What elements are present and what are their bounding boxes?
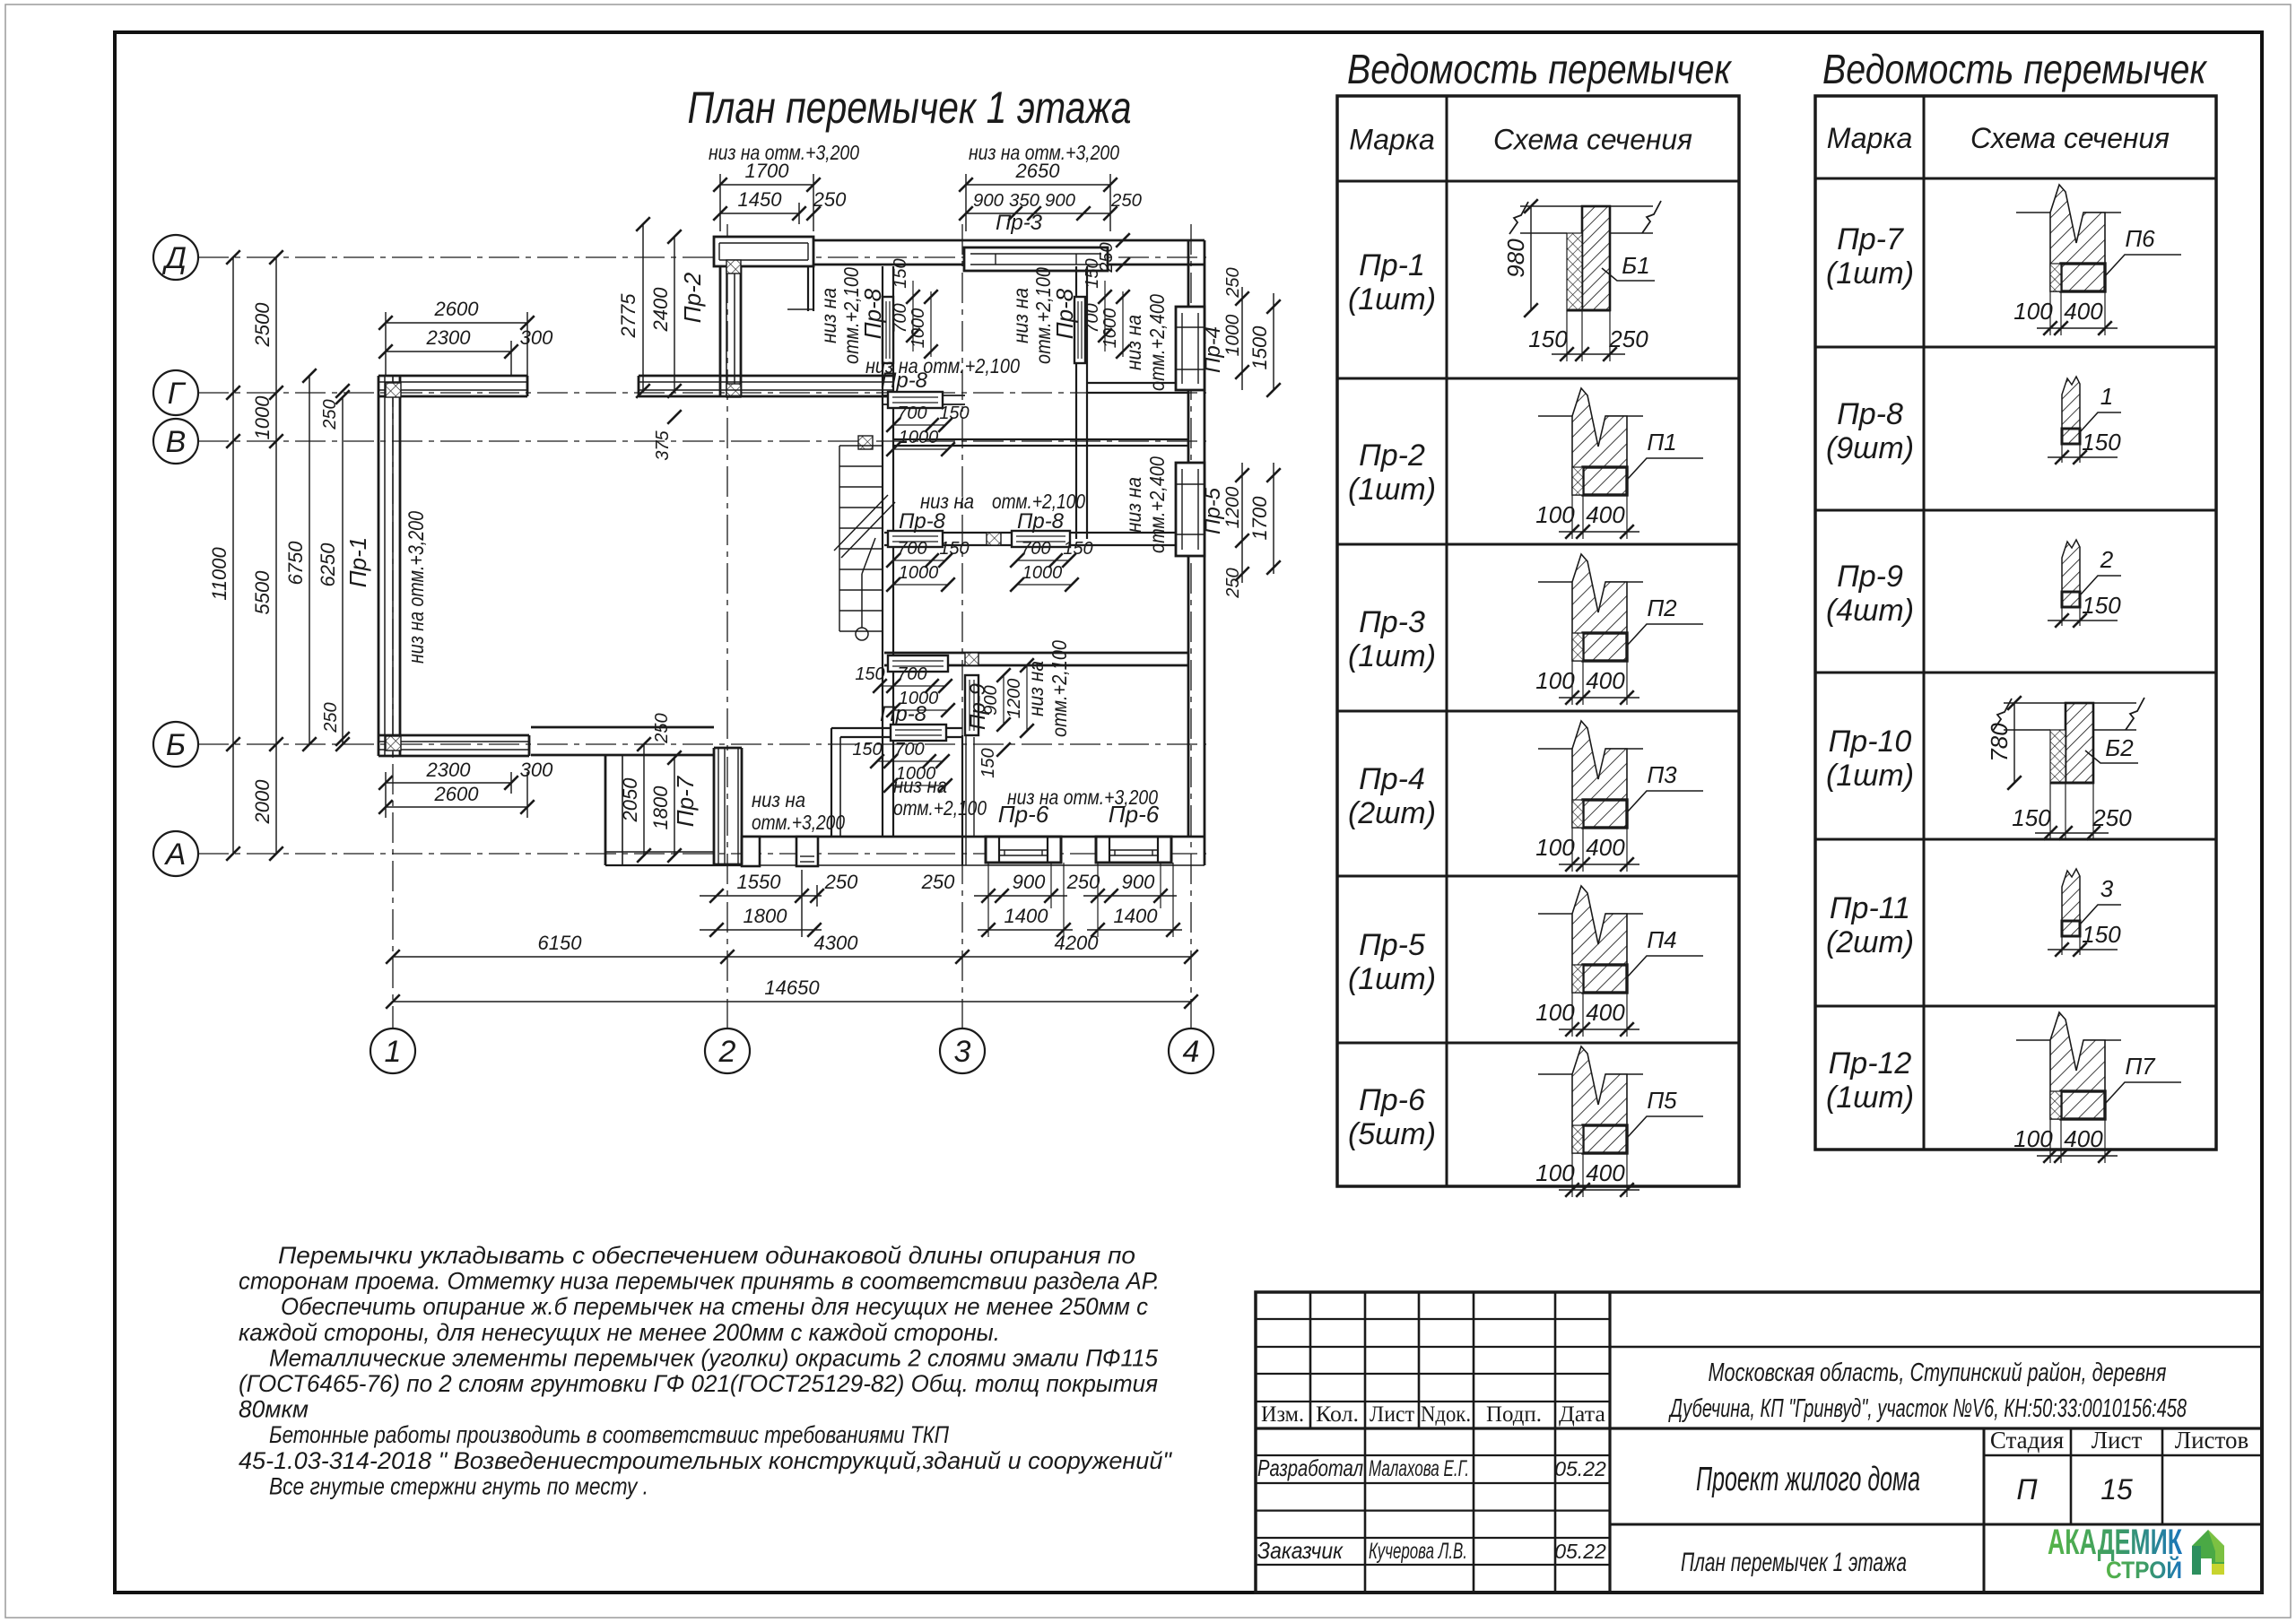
svg-text:4: 4 — [1183, 1035, 1200, 1069]
svg-text:(9шт): (9шт) — [1826, 431, 1914, 465]
svg-text:400: 400 — [1586, 501, 1625, 528]
svg-text:100: 100 — [2013, 1125, 2053, 1152]
bottom wall jamb piece x=827 — [742, 837, 760, 866]
svg-text:15: 15 — [2100, 1473, 2133, 1506]
porch bottom threshold — [605, 851, 714, 853]
svg-text:6750: 6750 — [284, 541, 307, 586]
svg-text:900: 900 — [1013, 871, 1046, 893]
svg-text:6250: 6250 — [317, 542, 339, 587]
axis А line — [198, 853, 1206, 855]
svg-text:400: 400 — [1586, 667, 1625, 694]
svg-text:150: 150 — [891, 258, 910, 288]
svg-text:350: 350 — [1009, 191, 1039, 211]
svg-text:2500: 2500 — [251, 302, 274, 348]
section diagram П6 — [2013, 185, 2181, 335]
svg-text:100: 100 — [1535, 501, 1575, 528]
left dim line 11000 — [232, 257, 234, 854]
axis circle А — [153, 831, 198, 876]
left dim line 2500/1000/5500/2000 — [275, 257, 277, 854]
lintel Пр-8 vertical bar right room — [1074, 297, 1085, 363]
svg-text:3: 3 — [2100, 875, 2114, 902]
svg-text:Пр-8: Пр-8 — [899, 509, 946, 534]
svg-text:Пр-8: Пр-8 — [1017, 509, 1065, 534]
lintel Пр-2 vertical wall lines — [719, 266, 722, 397]
svg-text:700: 700 — [1021, 539, 1050, 559]
svg-text:отм.+2,400: отм.+2,400 — [1145, 456, 1169, 553]
lintel Пр-8 vertical bar left room — [883, 297, 893, 363]
svg-text:2050: 2050 — [619, 777, 641, 823]
svg-text:Ведомость перемычек: Ведомость перемычек — [1822, 46, 2208, 92]
svg-text:150: 150 — [1063, 539, 1092, 559]
svg-text:П: П — [2016, 1473, 2038, 1506]
svg-text:Пр-8: Пр-8 — [881, 369, 928, 393]
dims for right vertical Пр-8 — [1104, 281, 1106, 352]
svg-text:План перемычек 1 этажа: План перемычек 1 этажа — [688, 82, 1132, 133]
axis circle Г — [153, 370, 198, 415]
svg-text:250: 250 — [2092, 804, 2132, 831]
svg-text:1800: 1800 — [744, 905, 788, 927]
svg-text:1000: 1000 — [1222, 314, 1243, 356]
svg-text:4200: 4200 — [1055, 932, 1100, 954]
svg-text:2000: 2000 — [251, 779, 274, 825]
svg-text:700: 700 — [1083, 303, 1102, 333]
svg-text:(1шт): (1шт) — [1826, 1081, 1914, 1115]
svg-text:отм.+2,100: отм.+2,100 — [893, 796, 987, 820]
svg-text:Пр-2: Пр-2 — [1359, 438, 1425, 473]
axis circle 2 — [705, 1028, 750, 1073]
svg-text:5500: 5500 — [251, 570, 274, 615]
svg-text:250: 250 — [1223, 267, 1243, 298]
svg-text:План перемычек 1 этажа: План перемычек 1 этажа — [1681, 1548, 1907, 1577]
dim 1800 rotated — [674, 758, 675, 855]
dim 2400 (rotated) — [674, 237, 675, 391]
lintel Пр-2 top corner bar — [714, 237, 813, 266]
svg-text:Пр-8: Пр-8 — [880, 702, 927, 726]
lintel Пр-4 bar — [1176, 307, 1205, 390]
svg-text:Пр-4: Пр-4 — [1201, 326, 1225, 373]
svg-text:1400: 1400 — [1004, 905, 1049, 927]
svg-text:А: А — [164, 838, 187, 872]
svg-text:Пр-8: Пр-8 — [1051, 288, 1078, 339]
svg-text:1: 1 — [2100, 383, 2113, 410]
svg-text:Пр-9: Пр-9 — [1837, 560, 1903, 594]
svg-text:Дата: Дата — [1559, 1402, 1605, 1427]
svg-text:300: 300 — [520, 759, 553, 781]
axis Д line — [198, 256, 1206, 258]
dims bar D — [893, 685, 945, 687]
section diagram 3 — [2048, 869, 2121, 957]
stair treads — [839, 445, 883, 447]
svg-text:отм.+3,200: отм.+3,200 — [752, 811, 845, 834]
svg-text:Пр-5: Пр-5 — [1359, 928, 1425, 962]
logo АКАДЕМИК СТРОЙ — [2048, 1523, 2224, 1584]
svg-text:05.22: 05.22 — [1554, 1457, 1606, 1480]
axis circle Д — [153, 235, 198, 280]
svg-text:250: 250 — [320, 399, 340, 430]
svg-text:150: 150 — [855, 664, 884, 684]
svg-text:250: 250 — [813, 188, 847, 211]
title block frame — [1256, 1292, 2262, 1593]
svg-text:Разработал: Разработал — [1257, 1454, 1363, 1481]
svg-text:1450: 1450 — [738, 188, 783, 211]
hatched pier top-left corner — [386, 383, 401, 397]
svg-text:Перемычки укладывать с обеспеч: Перемычки укладывать с обеспечением один… — [278, 1242, 1135, 1269]
hatched pier below Пр-2 top — [726, 260, 741, 273]
dim 2650 above Пр-3 — [966, 184, 1110, 186]
svg-text:Схема сечения: Схема сечения — [1493, 124, 1692, 156]
svg-text:150: 150 — [1528, 325, 1568, 352]
svg-text:150: 150 — [2082, 429, 2121, 456]
lintel Пр-8 bar E — [891, 725, 946, 741]
svg-text:Марка: Марка — [1349, 124, 1435, 156]
svg-text:Кол.: Кол. — [1316, 1402, 1359, 1427]
svg-text:1: 1 — [385, 1035, 402, 1069]
svg-text:Марка: Марка — [1827, 122, 1913, 154]
svg-text:1500: 1500 — [1248, 325, 1271, 370]
dim 1450/250 above Пр-2 — [720, 213, 799, 214]
svg-text:1000: 1000 — [899, 428, 939, 447]
svg-text:100: 100 — [1535, 834, 1575, 861]
svg-text:150: 150 — [939, 404, 969, 423]
svg-text:низ на отм.+3,200: низ на отм.+3,200 — [709, 141, 859, 164]
svg-text:низ на: низ на — [1024, 661, 1048, 716]
svg-text:2300: 2300 — [426, 759, 472, 781]
dim 1800 bottom — [700, 929, 822, 931]
svg-text:400: 400 — [2064, 298, 2103, 325]
svg-text:100: 100 — [2013, 298, 2053, 325]
svg-text:375: 375 — [653, 430, 673, 460]
svg-text:250: 250 — [1608, 325, 1648, 352]
axis circle Б — [153, 722, 198, 767]
svg-text:Листов: Листов — [2175, 1427, 2248, 1454]
svg-text:В: В — [166, 425, 187, 459]
svg-text:П2: П2 — [1647, 595, 1677, 621]
svg-text:250: 250 — [921, 871, 955, 893]
section diagram П3 — [1535, 721, 1703, 872]
svg-text:80мкм: 80мкм — [239, 1396, 309, 1423]
section diagram П2 — [1535, 554, 1703, 705]
svg-text:(1шт): (1шт) — [1826, 256, 1914, 291]
svg-text:2600: 2600 — [434, 783, 480, 805]
interior wall x=927-937 — [831, 728, 832, 837]
axis circle 4 — [1169, 1028, 1213, 1073]
exterior wall along axis Д — [813, 239, 1205, 242]
porch wall top on axis Б — [531, 726, 714, 729]
svg-text:900: 900 — [1122, 871, 1155, 893]
svg-text:Лист: Лист — [2092, 1427, 2143, 1454]
section diagram П1 — [1535, 388, 1703, 539]
svg-text:2400: 2400 — [649, 287, 672, 333]
wall on axis Г from stair to Пр-2 — [639, 375, 893, 378]
dims bar B — [893, 560, 945, 561]
lintel Пр-7 vertical bar — [713, 748, 716, 864]
svg-text:П4: П4 — [1647, 926, 1676, 953]
hatched pier at Г wall — [726, 384, 741, 397]
svg-text:(1шт): (1шт) — [1348, 639, 1436, 673]
svg-text:Ведомость перемычек: Ведомость перемычек — [1347, 46, 1733, 92]
axis circle 3 — [940, 1028, 985, 1073]
svg-text:780: 780 — [1986, 723, 2013, 762]
svg-text:Проект жилого дома: Проект жилого дома — [1696, 1461, 1920, 1498]
svg-text:Пр-4: Пр-4 — [1359, 762, 1425, 796]
svg-text:П5: П5 — [1647, 1087, 1677, 1114]
svg-text:Изм.: Изм. — [1261, 1402, 1304, 1427]
svg-text:(5шт): (5шт) — [1348, 1117, 1436, 1151]
svg-text:400: 400 — [1586, 999, 1625, 1026]
wall on axis В — [893, 438, 1188, 440]
porch left wall — [604, 756, 607, 865]
svg-text:Пр-6: Пр-6 — [1359, 1083, 1425, 1117]
dim 2600 top — [386, 322, 527, 324]
axis 2 line — [726, 224, 728, 1028]
svg-text:250: 250 — [652, 713, 672, 743]
svg-text:П3: П3 — [1647, 761, 1677, 788]
svg-text:1200: 1200 — [1004, 679, 1024, 719]
svg-text:Пр-8: Пр-8 — [1837, 397, 1903, 431]
title block right area lines — [1610, 1346, 2262, 1349]
lintel Пр-6 bar left — [986, 837, 1061, 863]
section diagram П4 — [1535, 886, 1703, 1037]
svg-text:Пр-6: Пр-6 — [998, 801, 1049, 828]
title block small-table vertical lines — [1309, 1292, 1312, 1428]
stair break line — [834, 495, 888, 551]
svg-text:900: 900 — [973, 191, 1004, 211]
svg-text:1000: 1000 — [251, 395, 274, 440]
dims bar E — [891, 760, 943, 762]
svg-text:низ на: низ на — [1009, 288, 1032, 343]
svg-text:250: 250 — [824, 871, 858, 893]
svg-text:Малахова Е.Г.: Малахова Е.Г. — [1369, 1456, 1469, 1481]
svg-text:4300: 4300 — [814, 932, 859, 954]
svg-text:700: 700 — [891, 303, 910, 333]
svg-text:2300: 2300 — [426, 326, 472, 349]
dim 2775 (rotated) — [642, 224, 644, 391]
svg-text:1800: 1800 — [649, 785, 672, 830]
svg-text:Пр-11: Пр-11 — [1830, 891, 1910, 925]
svg-text:Металлические элементы перемыч: Металлические элементы перемычек (уголки… — [269, 1344, 1159, 1371]
svg-text:(ГОСТ6465-76) по 2 слоям грунт: (ГОСТ6465-76) по 2 слоям грунтовки ГФ 02… — [239, 1370, 1158, 1397]
svg-text:250: 250 — [321, 702, 341, 733]
lintel Пр-8 bar B — [888, 531, 943, 547]
wall top (Г) of left room — [378, 375, 527, 378]
svg-text:Nдок.: Nдок. — [1421, 1402, 1471, 1427]
bottom dims 250 900 row — [974, 895, 1067, 897]
svg-text:900: 900 — [1045, 191, 1075, 211]
dims for left vertical Пр-8 — [912, 281, 914, 352]
lintel Пр-8 bar A (wall y=446) — [883, 395, 965, 396]
svg-text:Пр-12: Пр-12 — [1829, 1046, 1912, 1081]
svg-text:Пр-7: Пр-7 — [1837, 222, 1904, 256]
svg-text:Пр-5: Пр-5 — [1201, 487, 1225, 534]
hatched pier on Б wall — [965, 653, 978, 665]
dim 900 350 900 250 above Пр-3 — [966, 213, 1110, 214]
svg-text:400: 400 — [1586, 834, 1625, 861]
svg-text:Пр-8: Пр-8 — [859, 288, 886, 339]
svg-text:Пр-6: Пр-6 — [1109, 801, 1160, 828]
svg-text:1400: 1400 — [1114, 905, 1159, 927]
axis В line — [198, 440, 1206, 442]
svg-text:100: 100 — [1535, 667, 1575, 694]
svg-text:Б1: Б1 — [1622, 252, 1649, 279]
svg-text:(1шт): (1шт) — [1348, 282, 1436, 317]
wall bottom (Б) of left room — [378, 734, 529, 737]
section diagram 2 — [2048, 540, 2121, 628]
dim 1700 above Пр-2 — [720, 184, 813, 186]
svg-text:Все гнутые стержни гнуть по ме: Все гнутые стержни гнуть по месту . — [269, 1472, 648, 1499]
svg-text:900: 900 — [981, 685, 1001, 715]
dim 2600 bottom — [386, 806, 527, 808]
svg-text:250: 250 — [1223, 568, 1243, 598]
left dim line 6750 — [309, 376, 310, 744]
svg-text:11000: 11000 — [208, 546, 230, 600]
svg-text:Пр-2: Пр-2 — [679, 272, 706, 323]
svg-text:1550: 1550 — [737, 871, 782, 893]
dim 2300 top — [386, 351, 511, 352]
svg-text:400: 400 — [1586, 1159, 1625, 1186]
interior wall y=594-608 with lintels Пр-8 — [884, 532, 1188, 534]
svg-text:1700: 1700 — [1248, 496, 1271, 541]
svg-text:П7: П7 — [2125, 1053, 2156, 1080]
svg-text:100: 100 — [1535, 1159, 1575, 1186]
svg-text:(1шт): (1шт) — [1348, 473, 1436, 507]
svg-text:700: 700 — [897, 539, 926, 559]
svg-text:1200: 1200 — [1222, 486, 1243, 528]
axis Г line — [198, 392, 1206, 394]
svg-text:Б: Б — [166, 728, 186, 762]
svg-text:каждой стороны, для ненесущих: каждой стороны, для ненесущих не менее 2… — [239, 1319, 1000, 1346]
svg-text:(1шт): (1шт) — [1826, 759, 1914, 793]
hatched pier bottom-left corner — [386, 736, 401, 751]
interior wall stub x=901-907 — [807, 266, 809, 311]
svg-text:05.22: 05.22 — [1554, 1540, 1606, 1563]
axis 4 line — [1190, 224, 1192, 1028]
svg-text:700: 700 — [897, 404, 926, 423]
svg-text:Бетонные работы производить в: Бетонные работы производить в соответств… — [269, 1421, 949, 1448]
svg-text:Заказчик: Заказчик — [1257, 1537, 1344, 1564]
axis Б line — [198, 743, 1206, 745]
lintel Пр-1 left wall lines — [378, 376, 380, 756]
lintel Пр-6 bar right — [1096, 837, 1171, 863]
wall on axis Г right segment — [1087, 382, 1188, 384]
svg-text:Лист: Лист — [1370, 1402, 1414, 1427]
svg-text:низ на отм.+3,200: низ на отм.+3,200 — [969, 141, 1119, 164]
svg-text:1000: 1000 — [909, 308, 928, 349]
svg-text:1000: 1000 — [896, 764, 936, 784]
svg-text:П6: П6 — [2125, 225, 2155, 252]
svg-text:Пр-10: Пр-10 — [1829, 725, 1912, 759]
svg-text:низ на: низ на — [1122, 477, 1145, 533]
svg-text:Дубечина, КП "Гринвуд", участо: Дубечина, КП "Гринвуд", участок №V6, КН:… — [1668, 1394, 2187, 1423]
svg-text:150: 150 — [2082, 592, 2121, 619]
svg-text:отм.+2,400: отм.+2,400 — [1145, 294, 1169, 391]
svg-text:150: 150 — [1083, 258, 1102, 288]
svg-text:Московская область, Ступинский: Московская область, Ступинский район, де… — [1709, 1358, 2167, 1387]
dim row 6150/4300/4200 — [393, 956, 1191, 958]
axis 1 line — [392, 377, 394, 1028]
lintel Пр-8 bar C — [1012, 531, 1070, 547]
svg-text:700: 700 — [894, 740, 924, 759]
svg-text:низ на отм.+3,200: низ на отм.+3,200 — [404, 510, 429, 664]
interior wall on axis Б y=728-742 — [884, 652, 1188, 655]
lintel Пр-9 vertical — [965, 675, 978, 735]
svg-text:250: 250 — [1066, 871, 1100, 893]
schedule table frame — [1815, 96, 2216, 1150]
interior wall x=984-996 — [882, 266, 883, 837]
axis circle 1 — [370, 1028, 415, 1073]
svg-text:Б2: Б2 — [2105, 734, 2134, 761]
wall below Пр-9 to bottom band — [961, 735, 963, 865]
svg-text:700: 700 — [897, 664, 926, 684]
svg-text:(1шт): (1шт) — [1348, 962, 1436, 996]
dims bar A — [893, 424, 945, 426]
interior wall x=1200-1212 (top rooms divider) — [1075, 266, 1077, 539]
axis circle В — [153, 419, 198, 464]
stair walk line with circle — [856, 628, 868, 640]
axis 3 line — [961, 224, 963, 1028]
lintel Пр-3 bar — [964, 247, 1108, 271]
svg-text:1000: 1000 — [1022, 563, 1063, 583]
section diagram Б1 — [1502, 199, 1661, 361]
section diagram П5 — [1535, 1046, 1703, 1197]
svg-text:низ на: низ на — [817, 288, 840, 343]
section diagram 1 — [2048, 377, 2121, 464]
svg-text:(2шт): (2шт) — [1826, 925, 1914, 959]
svg-text:400: 400 — [2064, 1125, 2103, 1152]
section diagram П7 — [2013, 1012, 2181, 1163]
section diagram Б2 — [1986, 696, 2144, 840]
svg-text:Г: Г — [168, 377, 187, 411]
lintel Пр-8 bar D on Б wall — [888, 655, 948, 672]
svg-text:Обеспечить опирание ж.б перемы: Обеспечить опирание ж.б перемычек на сте… — [281, 1293, 1148, 1320]
svg-text:6150: 6150 — [538, 932, 583, 954]
svg-text:3: 3 — [954, 1035, 971, 1069]
bottom wall jamb piece x=888 — [796, 837, 818, 866]
dim 2050 rotated — [643, 744, 645, 855]
hatched pier on В wall near stairs — [858, 436, 873, 449]
svg-text:150: 150 — [2012, 804, 2051, 831]
svg-text:14650: 14650 — [764, 976, 820, 999]
interior wall y=812-822 — [831, 727, 891, 729]
exterior right wall — [1187, 240, 1190, 837]
svg-text:2600: 2600 — [434, 298, 480, 320]
hatched pier between bars B and C — [987, 533, 1001, 545]
dims bar C — [1017, 560, 1069, 561]
svg-text:250: 250 — [1110, 191, 1142, 211]
svg-text:Пр-3: Пр-3 — [1359, 605, 1425, 639]
dim row 14650 — [393, 1001, 1191, 1002]
left dim line 6250 — [342, 397, 344, 744]
svg-text:980: 980 — [1502, 239, 1529, 278]
svg-text:низ на: низ на — [1122, 315, 1145, 370]
svg-text:низ на: низ на — [752, 788, 805, 811]
svg-text:100: 100 — [1535, 999, 1575, 1026]
svg-text:Пр-7: Пр-7 — [672, 775, 699, 827]
svg-text:2: 2 — [2100, 546, 2114, 573]
svg-text:Пр-1: Пр-1 — [1359, 248, 1425, 282]
lintel Пр-5 bar — [1176, 463, 1205, 556]
schedule table frame — [1337, 96, 1739, 1186]
bottom dims 1400 1400 — [978, 929, 1073, 931]
svg-text:2775: 2775 — [617, 293, 639, 339]
svg-text:1000: 1000 — [899, 563, 939, 583]
svg-text:1000: 1000 — [1100, 308, 1120, 349]
dim 2300 bottom — [386, 782, 511, 784]
svg-text:150: 150 — [978, 748, 998, 777]
svg-text:СТРОЙ: СТРОЙ — [2106, 1556, 2182, 1584]
svg-text:Стадия: Стадия — [1990, 1427, 2064, 1454]
svg-text:2: 2 — [718, 1035, 736, 1069]
svg-text:Кучерова Л.В.: Кучерова Л.В. — [1369, 1539, 1467, 1564]
